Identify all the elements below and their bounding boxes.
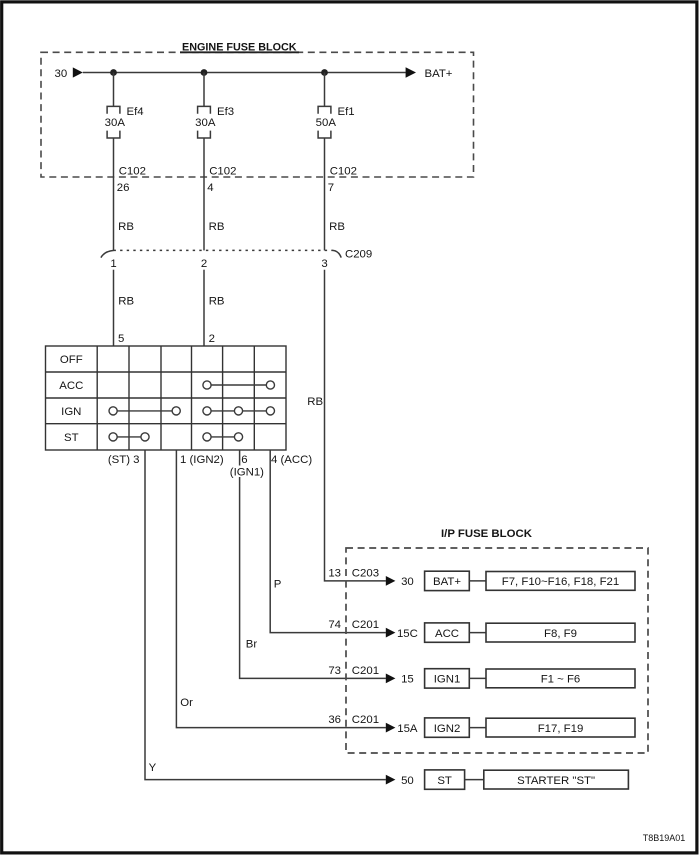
fuse list box F17 F19 — [486, 718, 635, 737]
wire bus 30 to BAT+ — [83, 72, 406, 74]
svg-text:ST: ST — [64, 432, 79, 444]
junction node 2 — [201, 69, 208, 76]
wire P from switch pin 4 to terminal 15C — [270, 450, 386, 633]
link IGN2 box to fuse list — [469, 727, 486, 729]
engine fuse block dashed enclosure — [41, 52, 474, 177]
wire C209 pin2 to switch pin 2 — [203, 270, 205, 346]
ST row contact link 1 — [113, 436, 145, 438]
junction node 1 — [110, 69, 117, 76]
svg-text:RB: RB — [209, 221, 225, 233]
solid line under title — [180, 51, 299, 53]
svg-text:ACC: ACC — [435, 628, 459, 640]
svg-text:Y: Y — [149, 762, 157, 774]
wire Or from switch pin 1 to terminal 15A — [176, 450, 386, 728]
svg-text:4: 4 — [207, 182, 213, 194]
svg-text:1 (IGN2): 1 (IGN2) — [180, 454, 224, 466]
svg-text:BAT+: BAT+ — [425, 68, 453, 80]
fuse list box F1-F6 — [486, 669, 635, 688]
svg-text:T8B19A01: T8B19A01 — [643, 833, 686, 843]
svg-text:6: 6 — [241, 454, 247, 466]
svg-text:15C: 15C — [397, 628, 418, 640]
link ACC box to fuse list — [469, 632, 486, 634]
svg-text:IGN1: IGN1 — [434, 674, 461, 686]
svg-text:IGN2: IGN2 — [434, 723, 461, 735]
wire Ef1 to C209 pin 3 — [324, 138, 326, 250]
svg-text:IGN: IGN — [61, 406, 81, 418]
svg-text:ACC: ACC — [59, 380, 83, 392]
svg-text:Ef4: Ef4 — [127, 106, 144, 118]
svg-text:RB: RB — [209, 296, 225, 308]
svg-text:I/P FUSE BLOCK: I/P FUSE BLOCK — [441, 528, 533, 540]
svg-text:C201: C201 — [352, 714, 379, 726]
C209 right end curl — [333, 250, 341, 257]
wire Ef3 to C209 pin 2 — [203, 138, 205, 250]
C209 left end curl — [101, 250, 114, 257]
svg-text:C201: C201 — [352, 665, 379, 677]
svg-text:STARTER "ST": STARTER "ST" — [517, 775, 595, 787]
svg-text:36: 36 — [328, 714, 341, 726]
arrow into bus from 30 — [73, 67, 83, 77]
junction node 3 — [321, 69, 328, 76]
svg-text:P: P — [274, 578, 282, 590]
svg-text:RB: RB — [307, 396, 323, 408]
arrow to BAT+ — [406, 67, 416, 77]
svg-text:30: 30 — [55, 68, 68, 80]
fuse Ef1 symbol — [318, 106, 331, 138]
ignition switch table grid — [46, 346, 287, 450]
svg-text:(IGN1): (IGN1) — [230, 467, 264, 479]
IGN1 box — [425, 669, 470, 688]
fuse Ef3 symbol — [198, 106, 211, 138]
svg-text:73: 73 — [328, 665, 341, 677]
svg-text:50A: 50A — [316, 117, 337, 129]
arrow to terminal 50 — [386, 775, 396, 785]
svg-text:7: 7 — [328, 182, 334, 194]
svg-text:1: 1 — [110, 258, 116, 270]
svg-text:ENGINE FUSE BLOCK: ENGINE FUSE BLOCK — [182, 41, 297, 53]
svg-text:26: 26 — [117, 182, 130, 194]
switch pin label (IGN1) backing — [229, 466, 263, 478]
ST box — [425, 770, 465, 789]
svg-text:2: 2 — [209, 333, 215, 345]
arrow to terminal 30 — [386, 576, 396, 586]
svg-text:OFF: OFF — [60, 354, 83, 366]
IGN row contact link 2 — [207, 410, 270, 412]
svg-text:F8, F9: F8, F9 — [544, 628, 577, 640]
svg-text:30A: 30A — [105, 117, 126, 129]
svg-text:5: 5 — [118, 333, 124, 345]
svg-text:Br: Br — [246, 639, 258, 651]
svg-text:RB: RB — [118, 296, 134, 308]
wire bus to fuse Ef1 — [324, 73, 326, 107]
wire RB from C209 pin 3 to terminal 30 — [325, 270, 386, 581]
svg-text:3: 3 — [321, 258, 327, 270]
svg-text:74: 74 — [328, 619, 341, 631]
svg-text:F7, F10~F16, F18, F21: F7, F10~F16, F18, F21 — [502, 576, 619, 588]
svg-text:C102: C102 — [119, 166, 146, 178]
IGN row contact circles — [109, 407, 275, 415]
arrow to terminal 15C — [386, 628, 396, 638]
fuse Ef4 symbol — [107, 106, 120, 138]
svg-text:F1 ~ F6: F1 ~ F6 — [541, 674, 581, 686]
link IGN1 box to fuse list — [469, 677, 486, 679]
IGN row contact link 1 — [113, 410, 176, 412]
svg-text:C102: C102 — [330, 166, 357, 178]
wire Ef4 to C209 pin 1 — [113, 138, 115, 250]
svg-text:C201: C201 — [352, 619, 379, 631]
svg-text:50: 50 — [401, 775, 414, 787]
svg-text:BAT+: BAT+ — [433, 576, 461, 588]
svg-text:ST: ST — [437, 775, 452, 787]
link ST box to starter box — [465, 779, 484, 781]
svg-text:(ST) 3: (ST) 3 — [108, 454, 140, 466]
svg-text:2: 2 — [201, 258, 207, 270]
svg-text:30A: 30A — [195, 117, 216, 129]
svg-text:Or: Or — [180, 697, 193, 709]
wire Br from switch pin 6 to terminal 15 — [240, 450, 386, 678]
ACC row contact circles — [203, 381, 275, 389]
connector C209 dotted line — [114, 249, 334, 251]
svg-text:15A: 15A — [397, 723, 418, 735]
ACC row contact link — [207, 384, 270, 386]
BAT+ box — [425, 571, 470, 590]
wire bus to fuse Ef3 — [203, 73, 205, 107]
wire Y from switch pin 3 to terminal 50 — [145, 450, 386, 780]
svg-text:Ef1: Ef1 — [338, 106, 355, 118]
ST row contact link 2 — [207, 436, 239, 438]
ACC box — [425, 623, 470, 642]
svg-text:13: 13 — [328, 567, 341, 579]
svg-text:RB: RB — [329, 221, 345, 233]
svg-text:Ef3: Ef3 — [217, 106, 234, 118]
fuse list box F7 F10-F16 F18 F21 — [486, 572, 635, 591]
svg-text:4 (ACC): 4 (ACC) — [271, 454, 312, 466]
link BAT+ box to fuse list — [469, 580, 486, 582]
svg-text:RB: RB — [118, 221, 134, 233]
svg-text:C203: C203 — [352, 567, 379, 579]
svg-text:C102: C102 — [209, 166, 236, 178]
wire C209 pin1 to switch pin 5 — [113, 270, 115, 346]
ST row contact circles — [109, 433, 243, 441]
fuse list box F8 F9 — [486, 623, 635, 642]
arrow to terminal 15A — [386, 723, 396, 733]
svg-text:15: 15 — [401, 674, 414, 686]
starter box — [484, 770, 629, 789]
svg-text:C209: C209 — [345, 248, 372, 260]
svg-text:30: 30 — [401, 576, 414, 588]
arrow to terminal 15 — [386, 674, 396, 684]
IGN2 box — [425, 718, 470, 737]
wire bus to fuse Ef4 — [113, 73, 115, 107]
I/P fuse block dashed enclosure — [346, 548, 648, 753]
svg-text:F17, F19: F17, F19 — [538, 723, 584, 735]
